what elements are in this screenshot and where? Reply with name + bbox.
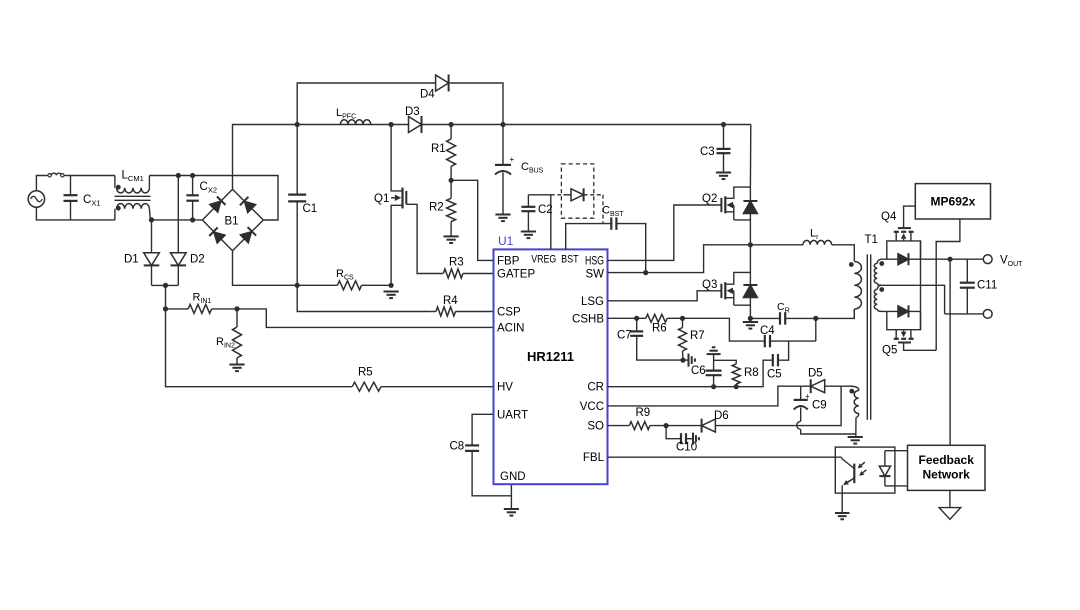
- svg-text:D3: D3: [405, 106, 420, 118]
- resistor R5: [352, 382, 493, 391]
- wire UART: [472, 414, 493, 445]
- svg-text:D6: D6: [714, 410, 729, 422]
- svg-text:R7: R7: [690, 330, 705, 342]
- label C9: [812, 400, 827, 412]
- bypass diode: [551, 188, 603, 223]
- label VOUT: [1000, 255, 1023, 269]
- node dot rail bottom: [748, 316, 753, 321]
- svg-text:R8: R8: [744, 367, 759, 379]
- svg-text:Q2: Q2: [702, 193, 717, 205]
- svg-text:T1: T1: [865, 234, 878, 246]
- label LPFC: [336, 107, 356, 121]
- label D4: [420, 89, 435, 101]
- capacitor C9: [794, 386, 856, 434]
- node dot D1D2: [163, 283, 168, 288]
- svg-text:R1: R1: [431, 143, 446, 155]
- resistor RIN1: [166, 304, 238, 313]
- choke core: [115, 196, 151, 200]
- wire VREG: [528, 195, 550, 250]
- transistor Q2: [721, 187, 750, 220]
- label D6: [714, 410, 729, 422]
- wire CSHB: [608, 317, 646, 319]
- svg-text:R6: R6: [652, 323, 667, 335]
- svg-text:Q5: Q5: [882, 345, 897, 357]
- label T1: [865, 234, 878, 246]
- T1 aux winding: [851, 386, 859, 437]
- label C4: [760, 325, 775, 337]
- node dot Vout: [948, 257, 953, 262]
- label CX1: [83, 194, 101, 208]
- svg-text:Q3: Q3: [702, 279, 717, 291]
- secondary dot lower: [879, 287, 884, 292]
- svg-text:CSP: CSP: [497, 307, 521, 319]
- wire: [666, 425, 702, 427]
- wire D4 branch right: [450, 83, 503, 125]
- capacitor CX2: [186, 176, 198, 220]
- svg-text:D5: D5: [808, 368, 823, 380]
- wire C4 riser: [815, 318, 817, 341]
- wire SW to Lr: [750, 244, 803, 246]
- node dot CSHB C7: [634, 316, 639, 321]
- node dot C6 CR: [711, 384, 716, 389]
- svg-text:R9: R9: [636, 407, 651, 419]
- bridge diode bottom-left: [209, 227, 225, 243]
- wire BST: [566, 224, 612, 250]
- label R7: [690, 330, 705, 342]
- capacitor C8: [465, 445, 511, 495]
- Q4 frame: [887, 241, 921, 259]
- secondary dot upper: [879, 261, 884, 266]
- svg-text:GND: GND: [500, 471, 526, 483]
- label Q2: [702, 193, 717, 205]
- wire center tap: [881, 285, 945, 314]
- label Q3: [702, 279, 717, 291]
- label C3: [700, 146, 715, 158]
- ground rail: [743, 322, 758, 329]
- IC U1 HR1211: [494, 249, 608, 484]
- pin labels U1: [497, 254, 605, 484]
- wire to primary: [816, 309, 855, 318]
- wire feedback gnd: [949, 490, 951, 507]
- label C8: [450, 441, 465, 453]
- Q3 body diode: [743, 245, 757, 319]
- wire: [149, 176, 278, 221]
- label Lr: [810, 228, 819, 242]
- inductor LCM1 bottom winding: [115, 204, 150, 220]
- svg-text:Network: Network: [923, 468, 971, 482]
- label Q1: [374, 193, 389, 205]
- svg-text:R5: R5: [358, 367, 373, 379]
- capacitor C10: [666, 426, 693, 445]
- svg-text:C11: C11: [977, 280, 997, 292]
- svg-text:C7: C7: [617, 330, 632, 342]
- label R3: [449, 257, 464, 269]
- svg-text:C6: C6: [691, 365, 706, 377]
- wire FBP link: [451, 180, 493, 260]
- wire HV line: [166, 309, 353, 387]
- label C11: [977, 280, 997, 292]
- label R8: [744, 367, 759, 379]
- T1 secondary lower: [874, 285, 881, 311]
- svg-text:ACIN: ACIN: [497, 322, 524, 334]
- node dot bus C1: [295, 122, 300, 127]
- resistor R6: [646, 314, 683, 322]
- wire: [150, 219, 202, 221]
- wire SW: [608, 245, 751, 273]
- resistor R9: [608, 422, 667, 430]
- ground aux: [848, 437, 863, 444]
- resistor R1: [447, 125, 456, 181]
- wire: [66, 175, 115, 177]
- svg-text:VREG: VREG: [531, 254, 556, 266]
- resistor RIN2: [233, 309, 242, 365]
- label R6: [652, 323, 667, 335]
- svg-text:Q4: Q4: [881, 211, 897, 223]
- capacitor CBUS: [495, 125, 511, 215]
- ground C2: [521, 232, 536, 239]
- primary polarity dot: [849, 262, 854, 267]
- ground RIN2: [229, 365, 244, 372]
- svg-text:C4: C4: [760, 325, 775, 337]
- transistor Q1: [391, 125, 406, 286]
- svg-text:HSG: HSG: [585, 255, 604, 267]
- svg-text:C9: C9: [812, 400, 827, 412]
- wire MP692x out: [936, 219, 960, 350]
- svg-text:BST: BST: [561, 254, 579, 266]
- inductor LPFC: [340, 120, 370, 125]
- node dot C7R7: [680, 358, 685, 363]
- node dot RIN1 right: [234, 306, 239, 311]
- node dot R1R2: [449, 178, 454, 183]
- resistor RCS: [297, 281, 391, 290]
- wire: [683, 359, 689, 361]
- node dot bus R1: [449, 122, 454, 127]
- wire C6 to R8: [714, 360, 737, 364]
- earth triangle: [939, 508, 961, 520]
- wire Q4 gate: [904, 206, 916, 228]
- svg-text:D1: D1: [124, 254, 139, 266]
- T1 secondary upper: [874, 259, 881, 285]
- capacitor C5: [773, 341, 789, 366]
- svg-text:R3: R3: [449, 257, 464, 269]
- bridge diode top-right: [240, 197, 256, 213]
- label CRcap: [777, 301, 790, 315]
- label C6: [691, 365, 706, 377]
- wire: [36, 207, 115, 220]
- label Feedback: [919, 453, 975, 482]
- node dot bus CBUS: [500, 122, 505, 127]
- node dot D1 top: [149, 217, 154, 222]
- transistor Q4: [894, 228, 914, 241]
- capacitor C6: [706, 354, 722, 387]
- svg-text:C8: C8: [450, 441, 465, 453]
- label R1: [431, 143, 446, 155]
- node dot SW: [748, 242, 753, 247]
- ground C3: [716, 173, 731, 180]
- wire LSG: [608, 291, 721, 301]
- rect diode top: [898, 253, 909, 265]
- bridge diode bottom-right: [240, 227, 256, 243]
- T1 primary winding: [854, 262, 861, 310]
- node dot CR right: [813, 316, 818, 321]
- capacitor C1: [288, 125, 306, 286]
- inductor Lr: [803, 240, 832, 244]
- wire Vout feedback drop: [949, 259, 951, 445]
- diode D6: [702, 419, 716, 433]
- Q2 body diode: [743, 125, 757, 245]
- svg-text:UART: UART: [497, 409, 528, 421]
- capacitor C11: [960, 259, 975, 314]
- wire primary bottom: [853, 309, 855, 318]
- svg-text:C1: C1: [303, 203, 318, 215]
- label R4: [443, 295, 458, 307]
- capacitor CR: [750, 312, 815, 324]
- resistor R8: [732, 364, 740, 387]
- feedback box: [908, 445, 986, 490]
- wire Lr to T1: [832, 245, 855, 262]
- label HR1211: [527, 349, 574, 364]
- node dot Q1 source: [389, 283, 394, 288]
- diode D5: [801, 379, 851, 393]
- wire bottom row: [881, 310, 921, 312]
- wire main bus: [297, 124, 751, 126]
- wire bridge top to bus: [233, 125, 298, 190]
- ground opto: [835, 513, 849, 519]
- opto LED: [879, 451, 890, 486]
- svg-text:R2: R2: [429, 202, 444, 214]
- node dot bus C3: [721, 122, 726, 127]
- svg-text:SO: SO: [587, 421, 604, 433]
- svg-text:Feedback: Feedback: [919, 453, 975, 467]
- wire bottom out row: [945, 313, 984, 315]
- svg-text:D4: D4: [420, 89, 435, 101]
- terminal Vout+: [983, 255, 992, 264]
- node dot R6 R7: [680, 316, 685, 321]
- wire D6 to aux: [715, 386, 841, 425]
- diode D3: [409, 116, 422, 133]
- opto light arrows: [858, 462, 867, 476]
- label CBUS: [521, 161, 544, 175]
- label Q5: [882, 345, 897, 357]
- capacitor CBST: [611, 217, 645, 272]
- svg-text:+: +: [510, 155, 515, 164]
- label C10: [676, 442, 697, 454]
- Q5 frame: [887, 311, 921, 329]
- svg-text:CSHB: CSHB: [572, 313, 604, 325]
- label Q4: [881, 211, 897, 223]
- rect diode bottom: [898, 305, 909, 317]
- bridge B1 outline: [202, 189, 263, 251]
- wire HSG: [608, 205, 721, 260]
- resistor R4: [430, 307, 493, 316]
- svg-text:C5: C5: [767, 369, 782, 381]
- label RCS: [336, 268, 354, 282]
- node dot CX2 top: [190, 173, 195, 178]
- label RIN1: [193, 292, 212, 306]
- svg-text:+: +: [805, 392, 810, 401]
- svg-text:HV: HV: [497, 382, 513, 394]
- ground up C6: [707, 347, 721, 354]
- CBUS plus: [510, 155, 515, 164]
- wire CSP link: [297, 285, 430, 311]
- svg-text:B1: B1: [225, 216, 239, 228]
- node dot D2 top: [176, 173, 181, 178]
- diode D1: [144, 220, 160, 286]
- node dot bus Q1: [389, 122, 394, 127]
- wire CSHB to C4: [683, 318, 765, 341]
- wire VCC: [608, 386, 801, 406]
- label C7: [617, 330, 632, 342]
- label D1: [124, 254, 139, 266]
- ground CBUS: [495, 215, 510, 222]
- capacitor C7: [630, 318, 683, 360]
- capacitor C4: [765, 335, 816, 347]
- svg-text:HR1211: HR1211: [527, 349, 574, 364]
- svg-text:VCC: VCC: [580, 401, 604, 413]
- inductor LCM1 top winding: [115, 176, 149, 193]
- resistor R3: [443, 269, 493, 278]
- node dot R9 D6: [664, 423, 669, 428]
- ground rotated C10: [693, 433, 699, 445]
- choke polarity dot2: [116, 206, 121, 211]
- svg-text:LSG: LSG: [581, 296, 604, 308]
- AC source VAC: [28, 191, 44, 207]
- bridge diode top-left: [209, 197, 225, 213]
- wire: [36, 176, 46, 191]
- capacitor C2: [521, 195, 535, 232]
- choke polarity dot: [116, 185, 121, 190]
- resistor R7: [679, 318, 687, 360]
- wire FBL: [608, 456, 842, 458]
- wire D4 branch left: [297, 83, 435, 125]
- fuse F1: [46, 173, 66, 177]
- ground Q1: [384, 292, 399, 299]
- wire opto rails: [885, 451, 908, 486]
- svg-text:R4: R4: [443, 295, 458, 307]
- label U1: [498, 234, 514, 248]
- label CX2: [200, 181, 218, 195]
- label LCM1: [122, 170, 144, 184]
- label R2: [429, 202, 444, 214]
- label D5: [808, 368, 823, 380]
- wire: [165, 285, 167, 309]
- svg-text:C2: C2: [538, 204, 553, 216]
- wire bridge bottom: [233, 251, 298, 286]
- label D3: [405, 106, 420, 118]
- label CBST: [602, 205, 624, 219]
- terminal Vout-: [983, 310, 992, 319]
- svg-text:FBL: FBL: [583, 452, 605, 464]
- wire top row: [881, 258, 983, 260]
- label R5: [358, 367, 373, 379]
- label R9: [636, 407, 651, 419]
- wire GND stub: [510, 484, 512, 509]
- dashed diode box: [561, 164, 593, 218]
- node dot R8 CR: [734, 384, 739, 389]
- svg-text:C3: C3: [700, 146, 715, 158]
- svg-text:GATEP: GATEP: [497, 269, 535, 281]
- transformer T1 core: [867, 254, 870, 419]
- svg-text:D2: D2: [190, 254, 205, 266]
- wire CR row: [608, 360, 773, 387]
- opto transistor: [842, 457, 855, 513]
- label RIN2: [216, 336, 235, 350]
- capacitor C3: [717, 125, 731, 173]
- svg-text:CR: CR: [587, 382, 604, 394]
- label MP692x: [931, 195, 976, 209]
- label C2: [538, 204, 553, 216]
- wire Q1 gate: [406, 204, 443, 273]
- ground rotated R7: [689, 354, 695, 367]
- wire Q5 gate: [904, 343, 937, 351]
- svg-text:Q1: Q1: [374, 193, 389, 205]
- diode D2: [171, 176, 187, 286]
- diode D4: [436, 75, 449, 92]
- rect join vertical: [920, 241, 922, 330]
- label C1: [303, 203, 318, 215]
- optocoupler box: [835, 447, 895, 493]
- resistor R2: [447, 180, 456, 236]
- svg-text:MP692x: MP692x: [931, 195, 976, 209]
- transistor Q3: [721, 272, 750, 305]
- node dot HV tap: [163, 306, 168, 311]
- label C5: [767, 369, 782, 381]
- wire D1D2 join: [152, 284, 179, 286]
- wire ACIN link: [237, 309, 494, 328]
- svg-text:FBP: FBP: [497, 255, 520, 267]
- transistor Q5: [894, 330, 914, 343]
- ground U1 GND: [504, 509, 519, 516]
- ground R2: [444, 236, 459, 243]
- svg-text:SW: SW: [585, 269, 604, 281]
- aux polarity dot: [849, 389, 854, 394]
- node dot CBST SW: [643, 270, 648, 275]
- svg-text:U1: U1: [498, 234, 514, 248]
- node dot CX2 bottom: [190, 217, 195, 222]
- C9 plus: [805, 392, 810, 401]
- label D2: [190, 254, 205, 266]
- label B1: [225, 216, 239, 228]
- IC MP692x: [915, 184, 990, 219]
- capacitor CX1: [64, 176, 78, 220]
- node dot C1 bottom: [295, 283, 300, 288]
